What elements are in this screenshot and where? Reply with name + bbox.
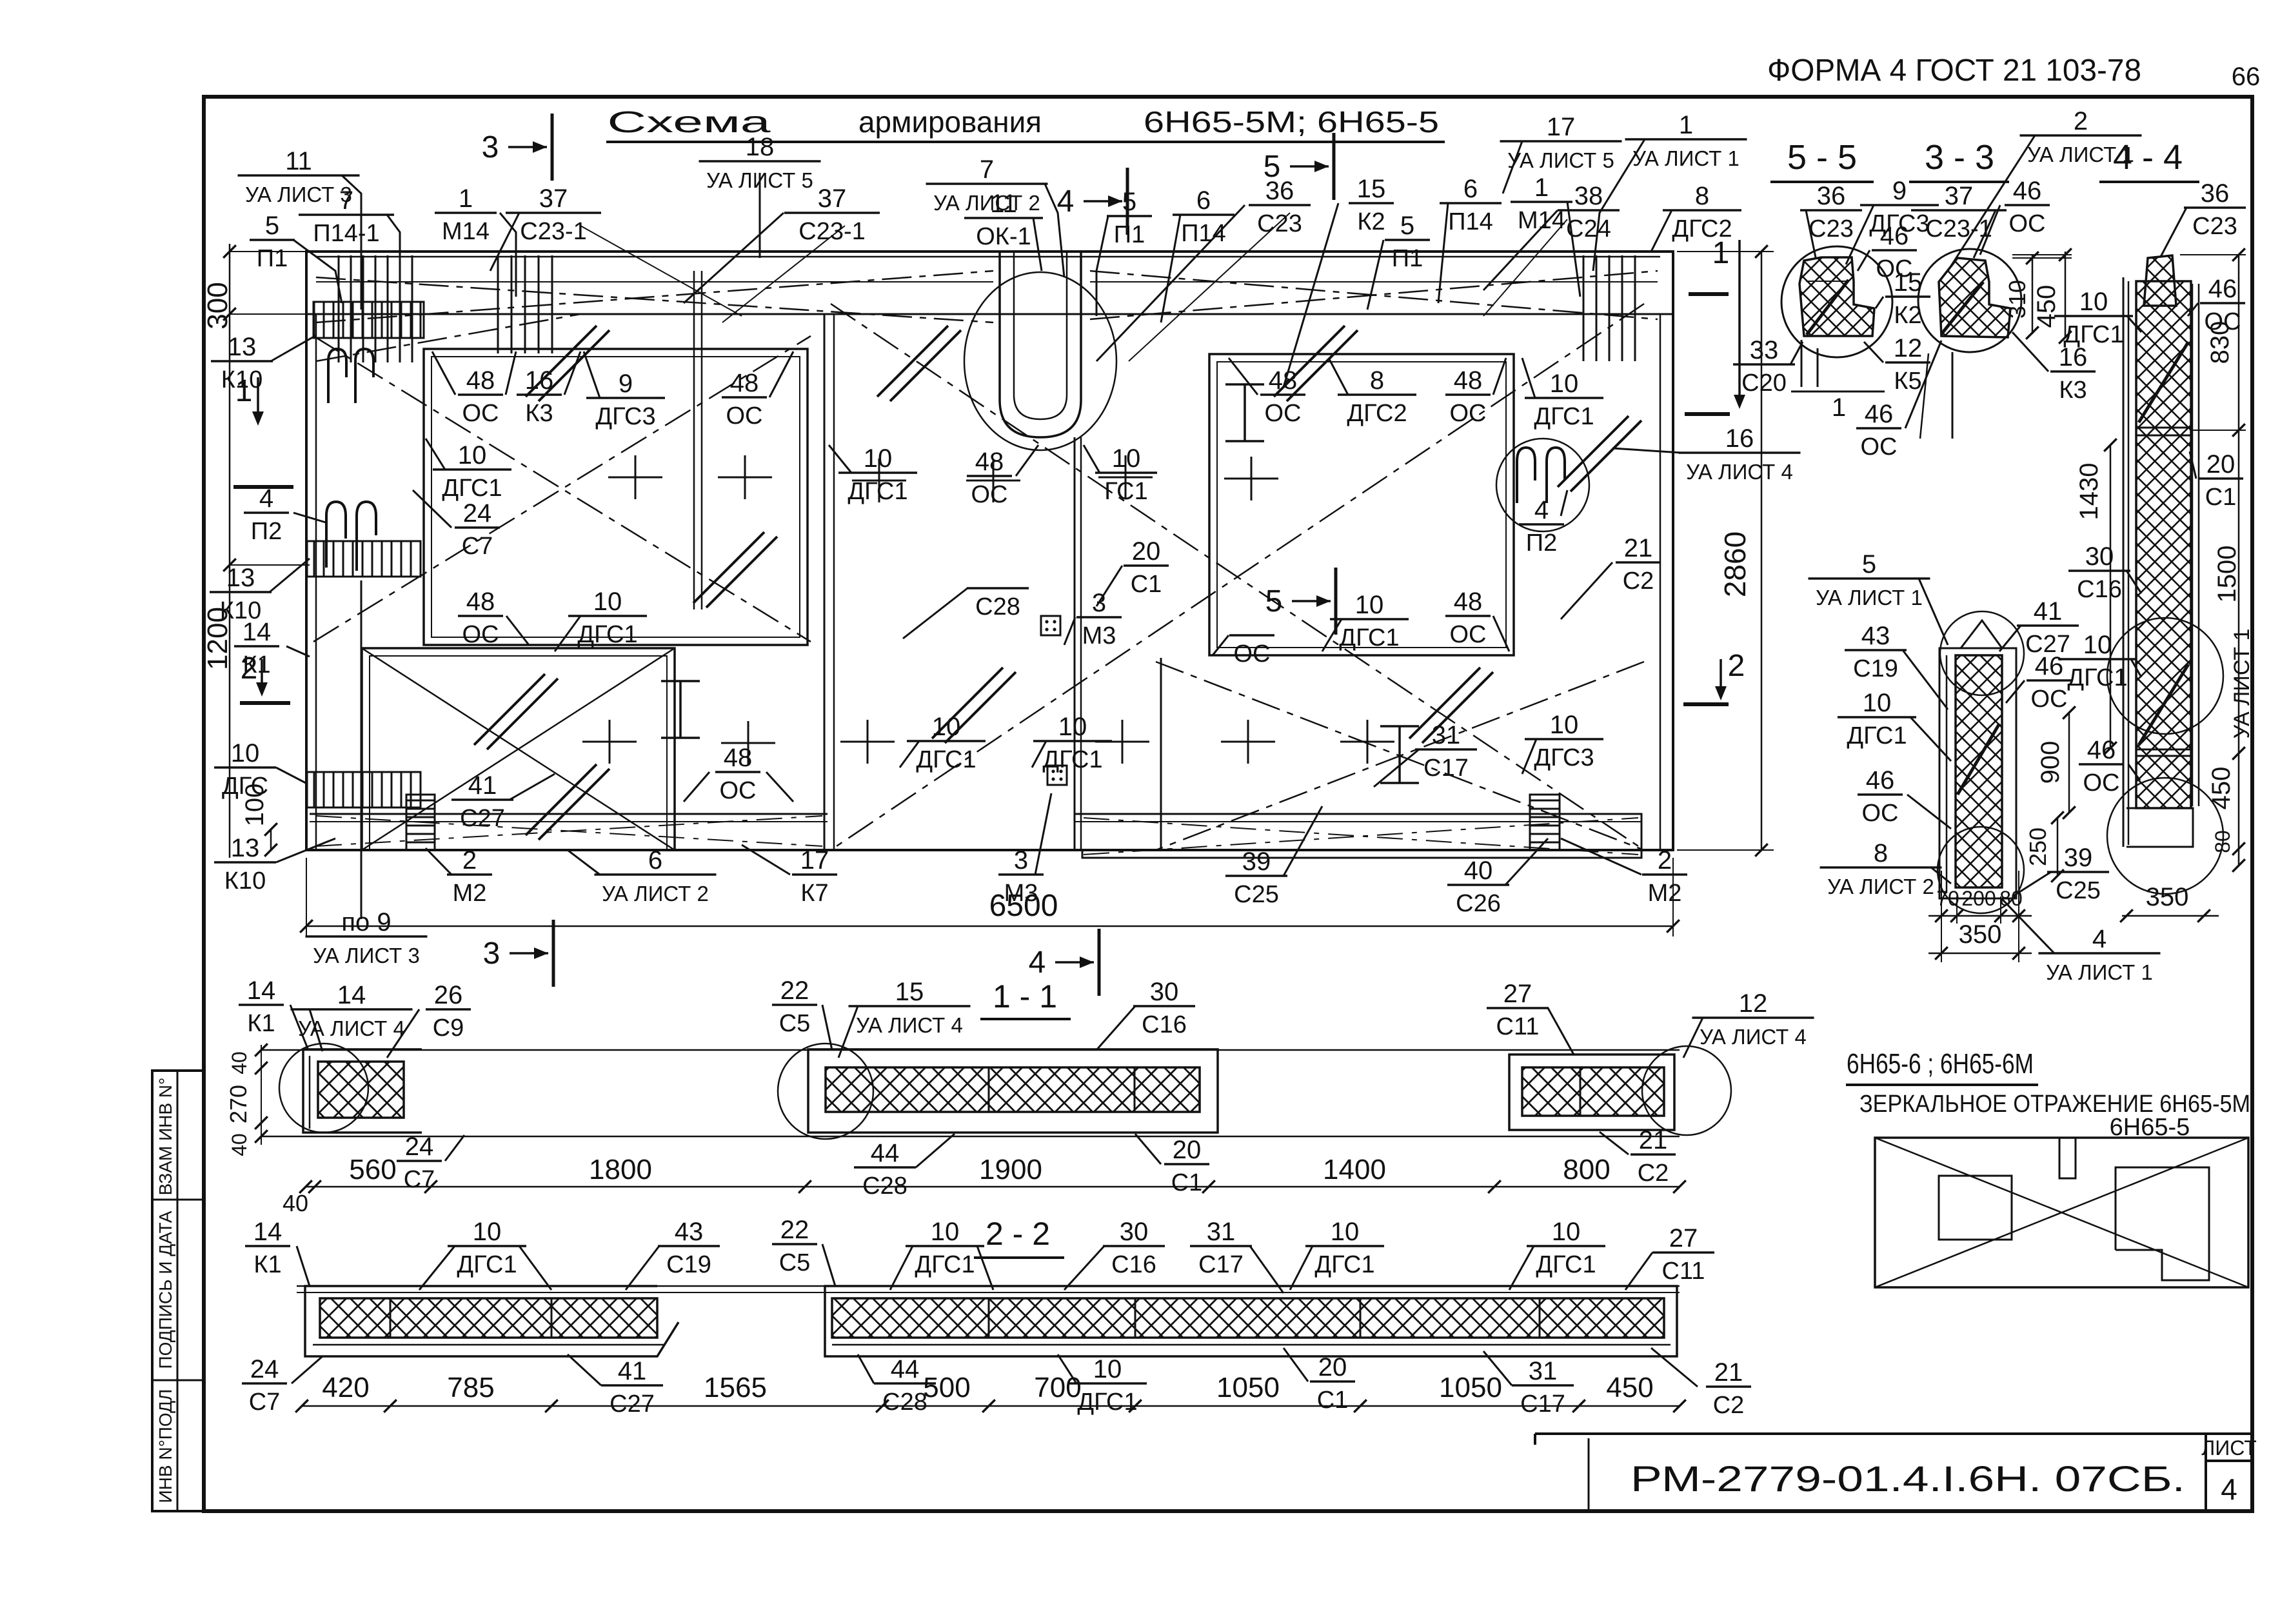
svg-text:250: 250 [2025, 827, 2051, 866]
callout 22/С5 [772, 1216, 835, 1286]
callout 10/ГС1 [1084, 444, 1157, 505]
callout 10/ДГС1 [2058, 631, 2141, 691]
callout 1/УА ЛИСТ 1 [1593, 111, 1747, 271]
svg-text:С23: С23 [2192, 213, 2237, 240]
svg-text:М2: М2 [453, 880, 487, 907]
svg-text:43: 43 [1861, 622, 1890, 650]
callout 10/ДГС1 [426, 439, 511, 502]
section 1-1 left block [279, 1044, 422, 1133]
svg-text:ОС: ОС [1861, 433, 1898, 460]
svg-text:33: 33 [1750, 336, 1779, 364]
svg-text:УА ЛИСТ 4: УА ЛИСТ 4 [1686, 460, 1793, 484]
svg-text:С11: С11 [1662, 1258, 1705, 1285]
svg-text:С5: С5 [779, 1010, 811, 1037]
svg-text:К1: К1 [253, 1251, 281, 1278]
callout 40/С26 [1447, 838, 1548, 917]
svg-text:С20: С20 [1741, 370, 1787, 397]
svg-text:С24: С24 [1566, 215, 1611, 243]
svg-text:ФОРМА 4 ГОСТ 21 103-78: ФОРМА 4 ГОСТ 21 103-78 [1767, 54, 2141, 88]
svg-text:17: 17 [1547, 113, 1576, 141]
callout 10/ДГС1 [555, 588, 647, 651]
svg-text:ОС: ОС [726, 402, 763, 430]
section mark 3 [482, 114, 552, 181]
callout 21/С2 [1600, 1126, 1676, 1187]
svg-text:10: 10 [931, 1218, 960, 1246]
window-edge dowel verticals [694, 271, 702, 609]
callout 46/ОС [2006, 652, 2072, 713]
rebar bundle top-right [1583, 255, 1635, 361]
svg-text:П1: П1 [257, 245, 288, 272]
svg-text:46: 46 [1865, 400, 1894, 428]
svg-text:С23-1: С23-1 [798, 218, 866, 245]
section 1-1 dimension line [283, 1154, 1686, 1216]
callout 18/УА ЛИСТ 5 [699, 133, 821, 258]
svg-text:ДГС1: ДГС1 [2067, 664, 2127, 691]
callout 6/УА ЛИСТ 2 [568, 846, 717, 906]
callout 14/УА ЛИСТ 4 [291, 981, 413, 1051]
callout 48/ОС [722, 352, 793, 430]
callout 8/ДГС2 [1651, 182, 1741, 252]
svg-text:48: 48 [724, 744, 753, 772]
svg-text:ДГС1: ДГС1 [1339, 624, 1399, 651]
callout 12/К5 [1864, 334, 1930, 395]
svg-text:5: 5 [1122, 188, 1136, 216]
svg-text:200: 200 [1961, 887, 1996, 910]
svg-text:УА ЛИСТ 4: УА ЛИСТ 4 [298, 1016, 405, 1040]
callout 2/М2 [1561, 838, 1687, 907]
callout 2/М2 [426, 846, 492, 907]
svg-text:27: 27 [1669, 1224, 1698, 1253]
dim 310/450 at section 3-3 [2004, 248, 2072, 344]
svg-text:1: 1 [1832, 393, 1846, 422]
svg-text:17: 17 [800, 846, 829, 875]
svg-text:ДГС: ДГС [222, 773, 268, 800]
svg-text:ВЗАМ ИНВ N°: ВЗАМ ИНВ N° [155, 1078, 175, 1196]
callout 16/К3 [2012, 332, 2096, 404]
svg-text:10: 10 [1863, 689, 1892, 717]
svg-text:70: 70 [1936, 887, 1959, 910]
svg-text:1400: 1400 [1323, 1154, 1386, 1185]
callout 33/С20 [1733, 336, 1803, 397]
svg-text:10: 10 [1093, 1355, 1122, 1383]
svg-text:24: 24 [463, 499, 492, 528]
svg-text:30: 30 [2085, 542, 2114, 571]
callout 5/П1 [1367, 212, 1430, 310]
svg-text:39: 39 [2064, 844, 2093, 872]
svg-text:С26: С26 [1456, 890, 1501, 917]
svg-text:С25: С25 [2056, 877, 2101, 904]
svg-text:38: 38 [1574, 182, 1603, 210]
callout 5/УА ЛИСТ 1 [1809, 550, 1948, 645]
svg-text:18: 18 [746, 133, 775, 161]
callout 1/М14 [1511, 173, 1580, 297]
callout 10/ДГС1 [900, 713, 986, 773]
svg-text:22: 22 [780, 976, 809, 1005]
svg-text:10: 10 [864, 444, 893, 473]
callout 48/ОС [1229, 358, 1305, 427]
section mark 2 left [240, 651, 290, 703]
svg-text:48: 48 [466, 588, 495, 616]
section 1-1 right block [1509, 1046, 1731, 1135]
dim chain right of 4-4 [2180, 248, 2246, 872]
callout 43/С19 [626, 1218, 720, 1290]
ladder hatch low-left [307, 772, 421, 807]
section 2-2 dimension line [295, 1372, 1686, 1412]
callout 20/С1 [2190, 450, 2243, 511]
right dimension 2860 [1677, 245, 1774, 857]
svg-text:785: 785 [447, 1372, 494, 1403]
svg-text:1 - 1: 1 - 1 [993, 978, 1057, 1015]
section mark 3 [483, 920, 553, 987]
callout 3/М3 [1064, 589, 1122, 649]
dimension 100 bottom-left [241, 784, 277, 857]
svg-text:УА ЛИСТ 1: УА ЛИСТ 1 [1632, 146, 1740, 170]
callout 31/С17 [1483, 1351, 1574, 1418]
callout 3/М3 [998, 793, 1051, 907]
svg-text:48: 48 [730, 369, 759, 397]
svg-text:П14: П14 [1448, 208, 1493, 235]
dim 350 bottom of 4-4 [2120, 883, 2219, 922]
callout 46/ОС [1980, 177, 2050, 255]
section 4-4 title [2099, 138, 2199, 182]
callout 31/С17 [1374, 721, 1477, 787]
section 2-2 title [974, 1216, 1064, 1258]
svg-text:12: 12 [1894, 334, 1923, 362]
svg-text:41: 41 [468, 771, 497, 800]
svg-text:К3: К3 [2059, 377, 2087, 404]
callout 48/ОС [1445, 588, 1509, 651]
svg-text:10: 10 [1331, 1218, 1360, 1246]
svg-text:5: 5 [1265, 584, 1283, 619]
ladder hatch bottom-left small [406, 795, 435, 850]
svg-text:46: 46 [2087, 736, 2116, 764]
callout 46/ОС [2188, 275, 2245, 335]
callout 14/К1 [245, 1218, 310, 1286]
callout 43/С19 [1845, 622, 1948, 709]
svg-text:1565: 1565 [704, 1372, 767, 1403]
svg-text:УА ЛИСТ 3: УА ЛИСТ 3 [313, 944, 420, 967]
svg-text:ДГС2: ДГС2 [1347, 400, 1407, 427]
callout 27/С11 [1487, 980, 1574, 1055]
svg-text:С1: С1 [1171, 1169, 1203, 1196]
svg-text:1: 1 [1679, 111, 1693, 139]
callout 9/ДГС3 [584, 352, 665, 430]
callout 15/К2 [1876, 268, 1930, 329]
svg-text:ОС: ОС [2031, 686, 2068, 713]
svg-text:22: 22 [780, 1216, 809, 1244]
svg-text:31: 31 [1432, 721, 1461, 749]
svg-text:5: 5 [1400, 212, 1414, 240]
svg-text:46: 46 [2013, 177, 2042, 205]
svg-text:5: 5 [265, 212, 279, 240]
callout 38/С24 [1483, 182, 1620, 290]
svg-text:К5: К5 [1894, 368, 1921, 395]
svg-text:1800: 1800 [589, 1154, 652, 1185]
svg-text:66: 66 [2232, 63, 2261, 91]
svg-text:24: 24 [405, 1133, 434, 1161]
svg-text:21: 21 [1639, 1126, 1668, 1154]
callout ОС [1213, 635, 1274, 668]
svg-text:10: 10 [593, 588, 622, 616]
svg-text:П14-1: П14-1 [313, 220, 379, 247]
svg-text:С11: С11 [1496, 1013, 1540, 1040]
svg-text:3: 3 [1014, 846, 1028, 875]
svg-text:10: 10 [1550, 711, 1579, 739]
svg-text:4: 4 [1534, 496, 1549, 524]
callout 48/ОС [432, 352, 516, 427]
svg-text:30: 30 [1120, 1218, 1149, 1246]
callout 10/ДГС1 [1522, 358, 1603, 430]
callout 7/П14-1 [299, 186, 400, 297]
callout 4/П2 [244, 484, 326, 545]
I-beam symbols [661, 384, 1419, 783]
callout 1/М14 [435, 184, 516, 297]
callout 11/УА ЛИСТ 3 [238, 147, 362, 310]
svg-text:6: 6 [1196, 186, 1211, 215]
svg-text:14: 14 [247, 976, 276, 1005]
svg-text:4: 4 [2092, 925, 2107, 953]
svg-text:ДГС1: ДГС1 [1536, 1251, 1596, 1278]
band inner chord lines [316, 281, 1658, 282]
callout 13/К10 [214, 834, 335, 895]
svg-text:270: 270 [225, 1085, 252, 1124]
mirror note title [1846, 1048, 2038, 1085]
svg-text:С1: С1 [1317, 1387, 1349, 1414]
svg-text:М3: М3 [1082, 622, 1116, 649]
svg-text:1900: 1900 [979, 1154, 1042, 1185]
svg-text:4 - 4: 4 - 4 [2113, 138, 2183, 177]
hook bars left-lower [326, 502, 376, 571]
callout 41/С27 [451, 771, 555, 832]
svg-text:46: 46 [2208, 275, 2237, 303]
svg-text:31: 31 [1207, 1218, 1236, 1246]
svg-text:300: 300 [202, 282, 233, 329]
mirror plan diagram [1875, 1138, 2248, 1287]
section 5-5 detail [1781, 246, 1892, 422]
callout 24/С7 [413, 490, 500, 560]
lower-left opening [362, 648, 675, 850]
svg-text:армирования: армирования [858, 105, 1042, 139]
svg-text:С17: С17 [1198, 1251, 1244, 1278]
callout 15/К2 [1284, 175, 1394, 387]
middle vertical section column [1939, 620, 2016, 898]
callout 10/ДГС1 [2054, 288, 2141, 348]
svg-text:10: 10 [1550, 370, 1579, 398]
svg-text:4: 4 [2221, 1472, 2237, 1506]
svg-text:14: 14 [243, 618, 272, 646]
svg-text:С2: С2 [1623, 568, 1654, 595]
svg-text:46: 46 [1866, 766, 1895, 795]
svg-text:16: 16 [1725, 424, 1754, 453]
callout 30/С16 [1064, 1218, 1165, 1290]
svg-text:36: 36 [1265, 177, 1294, 205]
svg-text:800: 800 [1563, 1154, 1610, 1185]
callout 41/С27 [1999, 597, 2079, 658]
callout 26/С9 [387, 981, 471, 1058]
svg-text:К10: К10 [224, 867, 266, 895]
svg-text:П1: П1 [1392, 245, 1423, 272]
svg-text:С25: С25 [1234, 881, 1279, 908]
callout 10/ДГС1 [890, 1218, 993, 1290]
svg-text:ОС: ОС [720, 777, 757, 804]
svg-text:ОС: ОС [1234, 640, 1271, 668]
svg-text:4: 4 [1057, 184, 1075, 219]
svg-text:ДГС1: ДГС1 [1847, 722, 1907, 749]
callout 39/С25 [2012, 844, 2109, 904]
svg-text:ДГС2: ДГС2 [1672, 215, 1732, 243]
svg-text:8: 8 [1874, 839, 1888, 867]
svg-text:2860: 2860 [1718, 531, 1752, 597]
callout 48/ОС [1445, 358, 1506, 427]
svg-text:УА ЛИСТ 4: УА ЛИСТ 4 [1700, 1025, 1807, 1049]
svg-text:ОС: ОС [1862, 800, 1899, 827]
callout 46/ОС [1858, 766, 1951, 829]
callout 15/УА ЛИСТ 4 [838, 978, 971, 1058]
svg-text:К1: К1 [247, 1010, 275, 1037]
svg-text:21: 21 [1714, 1358, 1743, 1387]
svg-text:15: 15 [1357, 175, 1386, 203]
hook bars right with circle [1496, 439, 1589, 531]
callout 31/С17 [1190, 1218, 1284, 1293]
svg-text:ДГС1: ДГС1 [915, 1251, 975, 1278]
svg-text:20: 20 [1318, 1353, 1347, 1381]
svg-text:37: 37 [818, 184, 847, 213]
right window opening [1209, 354, 1514, 655]
svg-text:8: 8 [1370, 366, 1384, 395]
svg-text:ОС: ОС [971, 481, 1008, 508]
callout 9/ДГС3 [1846, 177, 1939, 264]
svg-text:С28: С28 [882, 1389, 927, 1416]
opening ОК-1 slot [964, 252, 1116, 450]
section 3-3 title [1909, 138, 2009, 182]
callout 46/ОС [2079, 736, 2140, 797]
svg-text:ПОДПИСЬ И ДАТА: ПОДПИСЬ И ДАТА [155, 1211, 175, 1369]
svg-text:9: 9 [1892, 177, 1907, 205]
rebar bundle top-mid-left [498, 255, 552, 353]
svg-text:21: 21 [1624, 534, 1653, 562]
svg-text:УА ЛИСТ 4: УА ЛИСТ 4 [856, 1013, 963, 1037]
svg-text:УА ЛИСТ 1: УА ЛИСТ 1 [2046, 960, 2153, 984]
svg-text:ДГС1: ДГС1 [577, 621, 637, 648]
section 2-2 right segment [825, 1286, 1677, 1356]
center wall verticals [824, 314, 1161, 850]
section 3-3 detail [1918, 249, 2021, 439]
svg-text:10: 10 [458, 441, 487, 470]
callout 10/ДГС1 [1058, 1354, 1147, 1416]
svg-text:К2: К2 [1357, 208, 1385, 235]
callout 24/С7 [242, 1355, 322, 1416]
svg-text:46: 46 [1880, 222, 1909, 250]
svg-text:С9: С9 [433, 1015, 464, 1042]
svg-text:48: 48 [466, 366, 495, 395]
svg-text:12: 12 [1739, 989, 1768, 1018]
svg-text:10: 10 [231, 739, 260, 767]
svg-text:41: 41 [2034, 597, 2063, 626]
callout 10/ДГС1 [419, 1218, 551, 1290]
callout 36/С23 [2161, 179, 2246, 257]
svg-text:П2: П2 [251, 518, 282, 545]
svg-text:6Н65-5М; 6Н65-5: 6Н65-5М; 6Н65-5 [1144, 105, 1439, 139]
svg-text:10: 10 [1355, 591, 1384, 619]
svg-text:ЗЕРКАЛЬНОЕ ОТРАЖЕНИЕ 6Н65-5М: ЗЕРКАЛЬНОЕ ОТРАЖЕНИЕ 6Н65-5М [1859, 1091, 2250, 1118]
svg-text:24: 24 [250, 1355, 279, 1383]
svg-text:14: 14 [337, 981, 366, 1009]
callout 37/С23-1 [1911, 182, 2007, 258]
svg-text:ДГС1: ДГС1 [1534, 403, 1594, 430]
svg-text:4: 4 [259, 484, 273, 513]
section 2-2 plate lines [297, 1286, 1680, 1292]
svg-text:2: 2 [462, 846, 477, 875]
callout 30/С16 [1096, 978, 1195, 1050]
svg-text:С1: С1 [2205, 484, 2237, 511]
svg-text:УА ЛИСТ 2: УА ЛИСТ 2 [602, 882, 709, 906]
callout 24/С7 [397, 1133, 464, 1193]
svg-text:С2: С2 [1638, 1160, 1669, 1187]
callout 27/С11 [1625, 1224, 1714, 1290]
svg-text:ДГС1: ДГС1 [442, 475, 502, 502]
ladder hatch bottom-right small [1530, 795, 1560, 850]
callout 20/С1 [1284, 1348, 1355, 1414]
embed plate squares [1041, 616, 1067, 785]
svg-text:ДГС1: ДГС1 [2063, 321, 2123, 348]
section mark 1 right [1685, 236, 1745, 414]
section 1-1 title [980, 978, 1071, 1019]
svg-text:3: 3 [483, 936, 501, 971]
callout 5/П1 [1096, 188, 1152, 316]
callout 10/ДГС1 [1290, 1218, 1384, 1290]
callout 37/С23-1 [490, 184, 601, 271]
svg-text:С17: С17 [1520, 1391, 1565, 1418]
middle column detail circles [1938, 611, 2024, 913]
svg-text:9: 9 [619, 370, 633, 398]
svg-text:УА ЛИСТ 1: УА ЛИСТ 1 [1816, 586, 1923, 609]
svg-text:14: 14 [253, 1218, 283, 1246]
svg-text:ДГС3: ДГС3 [1534, 744, 1594, 771]
bottom mesh strip left [310, 814, 828, 846]
svg-text:420: 420 [322, 1372, 369, 1403]
svg-text:30: 30 [1150, 978, 1179, 1006]
left stamp column [152, 1071, 204, 1511]
svg-text:ДГС1: ДГС1 [1042, 746, 1102, 773]
svg-text:С1: С1 [1131, 571, 1162, 598]
svg-text:43: 43 [675, 1218, 704, 1246]
svg-text:11: 11 [285, 147, 312, 175]
svg-text:7: 7 [980, 155, 994, 184]
svg-text:С19: С19 [1853, 655, 1898, 682]
svg-text:48: 48 [975, 448, 1004, 476]
svg-text:20: 20 [2206, 450, 2235, 479]
section mark 4 [1057, 168, 1127, 235]
svg-text:31: 31 [1529, 1357, 1558, 1385]
svg-text:С5: С5 [779, 1249, 811, 1276]
left window opening [424, 349, 808, 645]
svg-text:40: 40 [228, 1051, 251, 1074]
callout 16/УА ЛИСТ 4 [1612, 424, 1801, 484]
svg-text:М3: М3 [1004, 880, 1038, 907]
svg-text:3 - 3: 3 - 3 [1925, 138, 1994, 177]
svg-text:С7: С7 [404, 1166, 435, 1193]
svg-text:С16: С16 [1142, 1011, 1187, 1038]
callout 6/П14 [1438, 175, 1502, 303]
svg-text:7: 7 [339, 186, 353, 215]
svg-text:ДГС3: ДГС3 [595, 403, 655, 430]
diagonal brace marks [474, 326, 1641, 840]
svg-text:350: 350 [1959, 920, 2002, 949]
section 4-4 column [2123, 255, 2199, 847]
callout 14/К1 [239, 976, 308, 1050]
callout 39/С25 [1225, 806, 1322, 908]
svg-text:ДГС1: ДГС1 [457, 1251, 517, 1278]
